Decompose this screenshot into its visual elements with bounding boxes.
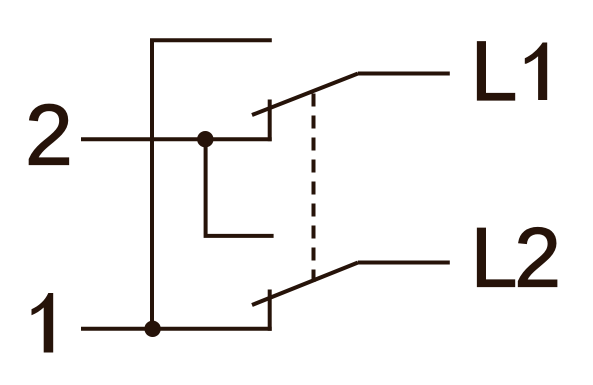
svg-text:L: L <box>471 24 518 118</box>
wire: L2 lead <box>358 261 450 265</box>
contact stub upper switch <box>268 100 272 142</box>
switch arm upper (to L1) <box>252 74 358 116</box>
wire: terminal 2 horizontal <box>81 137 272 141</box>
svg-text:2: 2 <box>25 88 73 184</box>
terminal label L1: digit 1 <box>525 43 547 101</box>
wire: middle stub from node A <box>206 139 274 236</box>
svg-text:L: L <box>471 211 518 305</box>
wire: L1 lead <box>358 72 450 76</box>
junction dot on terminal 1 line <box>144 321 160 337</box>
junction dot A on terminal 2 line <box>197 131 213 147</box>
terminal label 1 <box>32 293 54 353</box>
contact stub lower switch <box>268 290 272 331</box>
wire: terminal 1 horizontal <box>81 327 272 331</box>
wire: terminal 1 riser and top bracket <box>152 40 272 329</box>
dashed mechanical link between switch arms <box>312 94 316 283</box>
switch arm lower (to L2) <box>252 263 358 306</box>
svg-text:2: 2 <box>514 211 561 305</box>
